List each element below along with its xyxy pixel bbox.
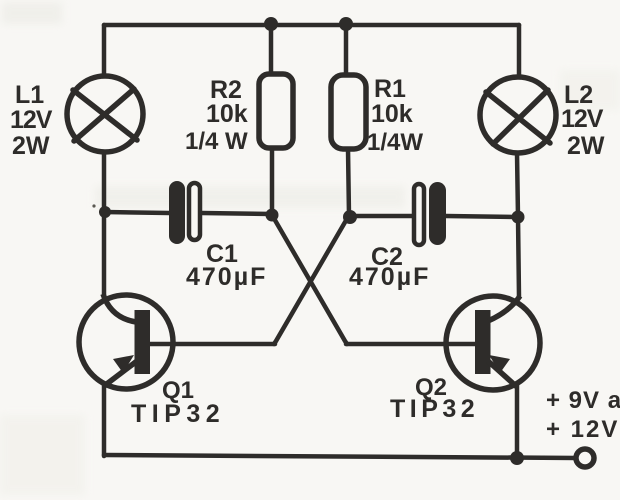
wire crossing diagonal B (C2/R1 node to Q1 base) bbox=[274, 217, 348, 344]
svg-text:2W: 2W bbox=[12, 132, 50, 160]
wire left vertical Q1 emitter to bottom rail bbox=[102, 384, 107, 456]
battery terminal bbox=[576, 449, 594, 467]
capacitor C2 bbox=[414, 182, 446, 245]
node C2/R1 junction bbox=[343, 210, 357, 224]
svg-text:10k: 10k bbox=[371, 100, 413, 128]
node left mid junction bbox=[99, 206, 111, 218]
svg-text:1/4W: 1/4W bbox=[367, 129, 423, 156]
wire left vertical L1-to-Q1 collector bbox=[102, 151, 107, 296]
node C1/R2 junction bbox=[266, 209, 279, 222]
svg-text:+ 9V a: + 9V a bbox=[546, 387, 620, 414]
wire Q2 emitter to bottom rail bbox=[515, 385, 520, 458]
wire mid-right C2 right bbox=[446, 216, 518, 217]
wire top rail bbox=[104, 23, 519, 28]
stray scan speck bbox=[92, 204, 95, 207]
node right mid junction bbox=[512, 211, 525, 224]
wire L2 top lead bbox=[517, 25, 522, 78]
resistor R1 bbox=[331, 75, 366, 149]
wire R1 bottom lead bbox=[348, 149, 349, 216]
transistor Q1 bbox=[79, 294, 173, 389]
transistor Q2 bbox=[446, 296, 540, 390]
svg-text:12V: 12V bbox=[10, 106, 53, 134]
wire R2 top lead bbox=[269, 25, 274, 75]
wire Q1 base line bbox=[150, 342, 275, 347]
wire Q2 base line bbox=[346, 342, 476, 347]
resistor R2 bbox=[259, 74, 293, 148]
svg-text:+ 12V: + 12V bbox=[546, 416, 619, 443]
wire L2 bottom to Q2 collector bbox=[517, 153, 519, 297]
wire mid-left C1 right bbox=[202, 213, 272, 214]
lamp L2 bbox=[480, 77, 556, 153]
svg-text:R1: R1 bbox=[374, 75, 406, 103]
svg-text:L1: L1 bbox=[15, 81, 44, 109]
node top R2 junction bbox=[264, 17, 278, 31]
capacitor C1 bbox=[169, 181, 200, 244]
svg-text:12V: 12V bbox=[561, 105, 604, 133]
wire L1 top lead bbox=[102, 25, 107, 77]
wire R2 bottom lead bbox=[270, 147, 275, 214]
lamp L1 bbox=[67, 76, 143, 152]
svg-text:470µF: 470µF bbox=[349, 263, 430, 291]
node bottom rail junction bbox=[510, 451, 524, 465]
svg-text:TIP32: TIP32 bbox=[131, 400, 225, 428]
wire mid-right C2 left bbox=[350, 214, 412, 219]
svg-text:1/4 W: 1/4 W bbox=[185, 128, 248, 155]
node top R1 junction bbox=[339, 17, 353, 31]
wire mid-left C1 left bbox=[104, 212, 169, 213]
svg-text:10k: 10k bbox=[206, 100, 248, 128]
svg-text:470µF: 470µF bbox=[186, 263, 267, 291]
wire crossing diagonal A (C1/R2 node to Q2 base) bbox=[272, 215, 347, 344]
wire bottom rail bbox=[104, 455, 577, 458]
svg-text:TIP32: TIP32 bbox=[390, 395, 479, 423]
wire R1 top lead bbox=[344, 25, 349, 76]
svg-text:2W: 2W bbox=[567, 132, 605, 160]
